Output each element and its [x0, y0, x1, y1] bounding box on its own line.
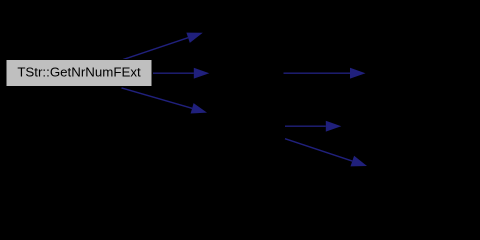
edge arrow A6: lower callee to bottom third-column node [285, 139, 367, 167]
edge arrow A4: middle callee to third-column node [284, 68, 366, 79]
edge arrow A3: main node to lower callee [122, 88, 208, 114]
edge arrow A1: main node to upper callee [123, 33, 203, 60]
edge arrow A5: lower callee to third-column node [285, 121, 341, 132]
node: TStr::GetNrNumFExt (current function, grey box) [6, 60, 152, 87]
svg-text:TStr::GetNrNumFExt: TStr::GetNrNumFExt [17, 64, 141, 79]
edge arrow A2: main node to middle callee [153, 68, 209, 79]
